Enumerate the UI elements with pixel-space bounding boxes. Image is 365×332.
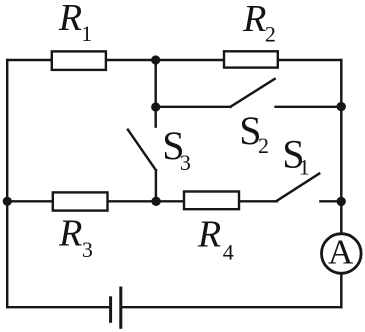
- svg-text:R: R: [58, 0, 82, 39]
- svg-text:2: 2: [258, 133, 269, 158]
- svg-text:3: 3: [82, 237, 93, 262]
- svg-text:4: 4: [223, 239, 234, 264]
- svg-text:1: 1: [81, 21, 92, 46]
- svg-text:2: 2: [265, 22, 276, 47]
- svg-text:R: R: [242, 0, 266, 40]
- svg-text:1: 1: [299, 155, 310, 180]
- svg-text:R: R: [58, 213, 82, 255]
- svg-text:A: A: [328, 232, 354, 271]
- svg-text:R: R: [197, 213, 221, 255]
- svg-text:3: 3: [180, 150, 191, 175]
